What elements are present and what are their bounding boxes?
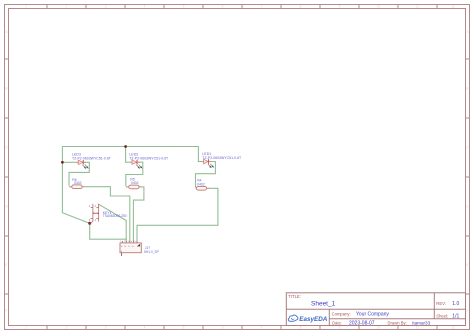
svg-text:Your Company: Your Company	[356, 312, 389, 318]
svg-text:1/1: 1/1	[452, 313, 459, 319]
svg-text:9: 9	[339, 326, 341, 330]
svg-text:Sheet_1: Sheet_1	[311, 301, 336, 308]
svg-text:REV:: REV:	[436, 301, 446, 306]
svg-text:1: 1	[25, 326, 27, 330]
svg-text:3: 3	[105, 5, 107, 9]
svg-text:12: 12	[451, 5, 455, 9]
svg-text:TITLE:: TITLE:	[288, 294, 301, 299]
svg-text:Sheet:: Sheet:	[436, 313, 448, 318]
svg-text:3: 3	[105, 326, 107, 330]
svg-text:TZ-P2-0603WYC51-0.6T: TZ-P2-0603WYC51-0.6T	[72, 156, 112, 160]
svg-text:1: 1	[25, 5, 27, 9]
svg-text:5: 5	[183, 5, 185, 9]
svg-text:0402: 0402	[197, 182, 205, 186]
svg-text:2023-08-07: 2023-08-07	[349, 321, 375, 327]
svg-text:F: F	[467, 309, 469, 313]
svg-text:5: 5	[183, 326, 185, 330]
svg-text:7: 7	[261, 5, 263, 9]
svg-text:0402: 0402	[131, 181, 139, 185]
svg-text:4: 4	[144, 5, 146, 9]
svg-text:B: B	[466, 87, 468, 91]
svg-text:B: B	[5, 87, 7, 91]
svg-text:7: 7	[261, 326, 263, 330]
svg-text:Date:: Date:	[332, 321, 342, 326]
svg-text:D-: D-	[128, 246, 131, 248]
svg-text:8: 8	[300, 5, 302, 9]
svg-text:Company:: Company:	[332, 312, 351, 317]
svg-text:2: 2	[66, 5, 68, 9]
svg-text:itamar33: itamar33	[412, 321, 430, 326]
svg-text:EasyEDA: EasyEDA	[299, 316, 327, 323]
svg-text:E: E	[466, 263, 468, 267]
svg-text:11: 11	[416, 5, 420, 9]
svg-text:8: 8	[300, 326, 302, 330]
svg-text:10: 10	[377, 5, 381, 9]
svg-text:TZ-P2-0603WYC51-0.6T: TZ-P2-0603WYC51-0.6T	[129, 156, 169, 160]
svg-text:11: 11	[416, 326, 420, 330]
svg-text:6: 6	[222, 326, 224, 330]
svg-text:TZ-P2-0603WYC51-0.6T: TZ-P2-0603WYC51-0.6T	[202, 156, 242, 160]
svg-text:10: 10	[377, 326, 381, 330]
svg-text:12: 12	[451, 326, 455, 330]
svg-text:4: 4	[144, 326, 146, 330]
svg-text:V-: V-	[124, 246, 126, 248]
svg-text:0402: 0402	[74, 181, 82, 185]
svg-text:F: F	[6, 309, 8, 313]
svg-text:E: E	[5, 263, 7, 267]
svg-text:Drawn By:: Drawn By:	[388, 321, 407, 326]
svg-text:2: 2	[66, 326, 68, 330]
svg-text:6: 6	[222, 5, 224, 9]
svg-text:1.0: 1.0	[452, 301, 459, 307]
svg-text:SH1.0_SP: SH1.0_SP	[144, 250, 159, 254]
svg-text:9: 9	[339, 5, 341, 9]
svg-text:TSA063D00-250: TSA063D00-250	[103, 214, 127, 218]
